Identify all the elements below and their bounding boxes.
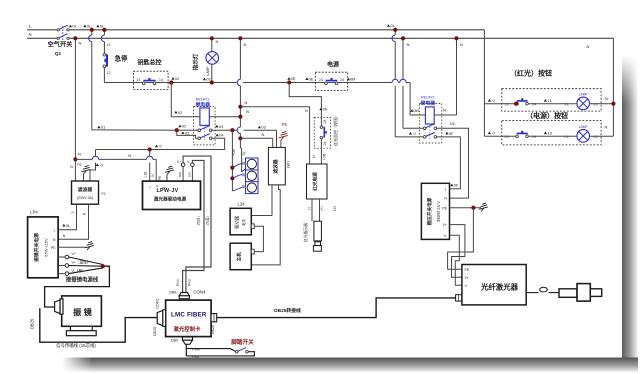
node +02 xyxy=(203,78,206,81)
svg-text:02: 02 xyxy=(185,130,190,135)
breaker Q1 (air switch) xyxy=(57,29,59,31)
wire +05 down to fans xyxy=(231,130,233,191)
svg-text:红光指示器: 红光指示器 xyxy=(303,223,308,242)
svg-text:PE: PE xyxy=(442,206,447,210)
wire DB25 adapter cable xyxy=(217,298,456,318)
svg-text:X1: X1 xyxy=(564,135,569,139)
svg-text:23: 23 xyxy=(318,78,322,82)
junction fan1 feed xyxy=(230,166,234,170)
svg-text:电源: 电源 xyxy=(327,61,339,69)
svg-text:振 镜: 振 镜 xyxy=(73,307,92,317)
svg-text:Pin1: Pin1 xyxy=(192,355,200,359)
PSU LPW-JV box xyxy=(143,181,201,209)
wire N drop x240 upper xyxy=(239,38,241,79)
svg-text:57W ±15V: 57W ±15V xyxy=(44,238,49,257)
wire N down to LPW N pin xyxy=(155,159,157,180)
svg-text:15(蓝): 15(蓝) xyxy=(204,216,209,225)
svg-text:0L: 0L xyxy=(72,24,77,29)
junction right rail xyxy=(611,102,615,106)
svg-text:N: N xyxy=(70,165,73,169)
relay U1 contact 2 xyxy=(198,137,201,140)
relay U2 coil xyxy=(425,107,434,124)
wire lamp to bus xyxy=(211,64,213,82)
wire Pin1 loop xyxy=(186,352,254,356)
svg-text:信号传输线 (15芯线): 信号传输线 (15芯线) xyxy=(56,342,96,349)
node +0M xyxy=(347,78,350,81)
svg-text:DB25: DB25 xyxy=(211,325,215,334)
svg-text:LP4: LP4 xyxy=(30,210,38,215)
svg-text:继电器: 继电器 xyxy=(421,99,436,106)
svg-text:N: N xyxy=(312,155,316,158)
wire N rail right of breaker xyxy=(69,37,614,39)
svg-text:主机: 主机 xyxy=(236,252,243,262)
wire hop xyxy=(89,35,92,41)
svg-text:L: L xyxy=(445,188,447,192)
svg-text:N: N xyxy=(79,41,82,46)
junction L x395 xyxy=(393,28,397,32)
svg-text:激光器驱动电源: 激光器驱动电源 xyxy=(154,196,187,203)
junction N x240 xyxy=(238,36,242,40)
power pushbutton xyxy=(516,135,519,138)
N drop x403 to relay2 xyxy=(402,38,404,79)
svg-text:振镜开关电源: 振镜开关电源 xyxy=(33,233,40,262)
svg-text:+0R: +0R xyxy=(322,153,326,160)
red-laser PSU 红光电源 xyxy=(307,164,328,199)
wire N to LW1 filter N pin xyxy=(242,137,273,139)
switched L return wire y149.5 xyxy=(96,149,225,151)
wire red PSU (-) to LD xyxy=(311,199,313,221)
junction at button 13 xyxy=(514,102,518,106)
wire L drop x104 to E-stop xyxy=(103,42,105,54)
svg-text:DB25: DB25 xyxy=(30,318,35,329)
wire N drop x240 mid xyxy=(239,86,241,107)
wire N down to fans xyxy=(239,138,241,148)
svg-text:0E: 0E xyxy=(323,107,328,112)
LP4 output terminals xyxy=(65,255,69,259)
svg-text:02: 02 xyxy=(178,110,183,115)
svg-text:12: 12 xyxy=(106,71,110,75)
wire L drop x92 lower xyxy=(91,42,93,130)
fan stack (3 cooling fans) xyxy=(246,158,259,194)
junction N x75 lower xyxy=(73,157,77,161)
wire relay1 contact2 out to left rail xyxy=(96,138,225,149)
svg-text:L1B: L1B xyxy=(144,172,148,178)
node +0L xyxy=(83,25,86,28)
wire L drop to filter lower xyxy=(90,163,96,181)
junction N x403 xyxy=(401,36,405,40)
svg-text:03: 03 xyxy=(219,124,224,129)
svg-text:24: 24 xyxy=(323,141,327,145)
svg-text:PE: PE xyxy=(158,176,162,180)
wire N drop x240 to coil junction xyxy=(239,107,241,127)
ground xyxy=(85,242,94,250)
svg-text:N2: N2 xyxy=(450,122,455,126)
junction bus red-laser branch xyxy=(287,80,291,84)
wire jog to relay1 contact2 xyxy=(177,130,198,138)
svg-text:(-): (-) xyxy=(307,207,311,210)
wire N drop x75 xyxy=(74,38,76,159)
laser control card LMC FIBER xyxy=(166,300,212,337)
svg-text:15(白): 15(白) xyxy=(196,216,201,225)
relay U2 contact 1 xyxy=(423,127,426,130)
svg-text:PE: PE xyxy=(465,268,470,272)
svg-text:LAMP: LAMP xyxy=(206,66,210,76)
junction N red-laser feed xyxy=(238,105,242,109)
svg-text:V-: V- xyxy=(187,160,190,164)
svg-text:X2: X2 xyxy=(593,135,598,139)
wire LPW V+ to CON4 xyxy=(183,156,211,292)
svg-text:0F: 0F xyxy=(454,183,459,188)
svg-text:Q1: Q1 xyxy=(55,51,62,57)
wire relay1 coil A2 to N xyxy=(209,116,240,118)
wire filter N out to LP4 xyxy=(58,204,88,239)
junction N x75 xyxy=(73,36,77,40)
svg-text:LPW-JV: LPW-JV xyxy=(156,188,178,194)
wire N down to filter F1 xyxy=(74,159,76,181)
wire control bus left xyxy=(104,82,236,84)
svg-text:0M: 0M xyxy=(350,77,356,82)
svg-text:LW1: LW1 xyxy=(286,161,290,169)
svg-text:-L: -L xyxy=(149,185,152,189)
svg-text:接振镜电源线: 接振镜电源线 xyxy=(66,276,99,284)
red-light button row wire xyxy=(484,103,516,105)
junction L x92 xyxy=(90,28,94,32)
svg-text:V-: V- xyxy=(465,284,468,288)
wire L drop x92 upper xyxy=(91,30,93,35)
junction bus lamp bottom xyxy=(210,80,214,84)
svg-text:N: N xyxy=(128,153,131,158)
wire bus drop to relay2 coil xyxy=(409,83,411,116)
svg-text:V+: V+ xyxy=(443,223,448,227)
wire +03 down to LW1 filter L pin xyxy=(276,130,278,147)
ground xyxy=(82,166,91,174)
svg-text:红光总控（按钮）: 红光总控（按钮） xyxy=(332,114,338,146)
svg-text:PE: PE xyxy=(162,186,166,190)
wire PE to laser xyxy=(448,208,474,270)
power button row wire xyxy=(484,135,516,137)
N drop x456.5 to relay2 coil xyxy=(456,38,458,115)
svg-text:N: N xyxy=(246,109,249,114)
svg-text:13: 13 xyxy=(547,131,552,136)
fan lead wires xyxy=(232,163,245,167)
svg-text:DB9: DB9 xyxy=(169,291,176,295)
wire L drop to filter upper xyxy=(95,150,97,157)
ground xyxy=(479,203,488,211)
svg-text:滤波器: 滤波器 xyxy=(78,186,93,193)
wire hop xyxy=(92,156,98,159)
svg-text:N: N xyxy=(245,100,248,105)
svg-text:Pin1: Pin1 xyxy=(176,279,180,286)
foot switch wires Pin9/Pin1 xyxy=(185,344,187,356)
wire N to relay2 contact1 xyxy=(403,127,424,129)
wire V+ to laser xyxy=(450,225,465,278)
CON4 connector top xyxy=(179,293,189,296)
svg-text:13: 13 xyxy=(504,103,508,107)
svg-text:03: 03 xyxy=(261,125,266,130)
svg-text:N: N xyxy=(242,152,247,155)
svg-text:Pin9: Pin9 xyxy=(192,347,200,351)
svg-text:激光控制卡: 激光控制卡 xyxy=(174,325,202,333)
wire L24 box1-box2 link xyxy=(254,226,263,251)
L drop x395 to relay2 xyxy=(394,30,396,35)
svg-text:+05: +05 xyxy=(232,149,236,155)
CON1 connector left xyxy=(157,310,163,325)
svg-text:滤波器: 滤波器 xyxy=(272,159,279,174)
svg-text:急停: 急停 xyxy=(115,54,128,63)
galvo head 振镜 xyxy=(62,296,102,326)
collimator assembly xyxy=(559,289,577,298)
page shadow right xyxy=(622,55,638,370)
svg-text:15V: 15V xyxy=(187,172,191,177)
wire L drop x104 upper xyxy=(103,30,105,35)
wire control bus gap xyxy=(398,82,399,84)
node +02 xyxy=(171,77,174,80)
svg-text:23: 23 xyxy=(504,135,508,139)
wire N down to fans x241.6 xyxy=(241,148,243,172)
wire +0M to relay2 coil xyxy=(410,114,425,116)
junction bus relay1 coil drop xyxy=(169,80,173,84)
junction fan2 feed xyxy=(230,176,234,180)
power button dashed box xyxy=(502,121,601,145)
svg-text:N: N xyxy=(444,197,447,201)
right rail of button panel xyxy=(612,38,614,136)
fiber output xyxy=(526,292,538,294)
svg-text:光纤激光器: 光纤激光器 xyxy=(480,283,519,292)
svg-text:F1: F1 xyxy=(102,192,106,196)
svg-text:（红光）按钮: （红光）按钮 xyxy=(510,69,552,78)
wire control bus right end xyxy=(406,82,410,84)
PE ground at LW1 xyxy=(280,140,282,147)
wire E-stop to bus xyxy=(103,68,105,83)
node +0L xyxy=(96,25,99,28)
wire hop xyxy=(237,79,240,85)
L24 interconnect xyxy=(251,224,254,229)
DB9 connector bottom xyxy=(183,337,193,340)
junction L x104 xyxy=(102,28,106,32)
svg-text:N: N xyxy=(156,184,158,188)
junction N relay1 coil xyxy=(238,115,242,119)
node +0E xyxy=(287,77,290,80)
svg-text:0E: 0E xyxy=(291,76,296,81)
PSU PE to ground xyxy=(450,207,482,209)
junction N x456 xyxy=(454,36,458,40)
wire N drop x240 below hop xyxy=(239,133,241,138)
fiber laser DB25 stub connector xyxy=(456,295,462,301)
foot switch contact xyxy=(236,350,239,353)
svg-text:LAMP: LAMP xyxy=(579,92,588,96)
svg-text:(220V 3A): (220V 3A) xyxy=(77,196,93,200)
ground xyxy=(279,132,288,140)
PSU 稳压开关电源 350W24V xyxy=(421,183,449,239)
svg-text:13: 13 xyxy=(136,78,140,82)
wire filter L out to LP4 xyxy=(58,204,76,230)
relay U1 coil xyxy=(200,108,209,126)
svg-text:14: 14 xyxy=(532,103,536,107)
svg-text:N: N xyxy=(216,39,219,44)
svg-text:CON4: CON4 xyxy=(193,289,206,294)
wire galvo power cable xyxy=(45,266,110,307)
junction PE xyxy=(471,206,475,210)
galvo power cable xyxy=(69,257,103,265)
PSU 振镜开关电源 LP4 xyxy=(28,217,58,278)
node +0L xyxy=(69,25,72,28)
junction N lamp top xyxy=(210,36,214,40)
svg-text:PE: PE xyxy=(51,246,56,250)
svg-text:X1: X1 xyxy=(564,103,569,107)
node +0 filter xyxy=(96,163,99,166)
svg-text:L: L xyxy=(54,229,56,233)
svg-text:V+: V+ xyxy=(177,160,181,164)
galvo DB25 connector xyxy=(60,299,63,314)
wire Pin9 to foot switch xyxy=(186,349,235,352)
DB25 connector right xyxy=(211,314,217,322)
wire galvo signal cable xyxy=(40,308,157,342)
svg-text:脚踏开关: 脚踏开关 xyxy=(231,338,254,346)
wire LW1 out2 to L24 box2 xyxy=(251,185,280,265)
filter F1 ground xyxy=(83,174,85,181)
svg-text:0F: 0F xyxy=(449,131,454,136)
svg-text:DB9: DB9 xyxy=(171,339,178,343)
ground xyxy=(165,166,174,174)
svg-text:24: 24 xyxy=(532,135,536,139)
svg-text:L24: L24 xyxy=(238,202,246,207)
svg-text:V+: V+ xyxy=(72,252,77,256)
relay U1 contact 1 xyxy=(198,129,201,132)
junction N LW1 feed xyxy=(238,136,242,140)
wire bus to relay1 coil A1 xyxy=(170,83,172,117)
junction +03 fan feed xyxy=(230,128,234,132)
red-laser master pushbutton 红光总控 xyxy=(314,117,330,148)
svg-text:350W 24 V: 350W 24 V xyxy=(436,201,441,222)
junction galvo cable xyxy=(101,264,105,268)
wire hop xyxy=(392,35,395,41)
svg-text:继电器: 继电器 xyxy=(196,101,211,108)
svg-text:N: N xyxy=(305,108,308,113)
wire bus to red-laser master switch xyxy=(289,83,321,126)
svg-text:0L: 0L xyxy=(66,223,71,228)
svg-text:(+): (+) xyxy=(320,206,324,210)
svg-text:N: N xyxy=(244,42,247,47)
svg-text:PE: PE xyxy=(77,163,82,167)
box L24 load 2 xyxy=(230,243,251,270)
svg-text:钥匙总控: 钥匙总控 xyxy=(137,59,161,67)
svg-text:N: N xyxy=(407,42,410,47)
relay U2 contact 2 xyxy=(423,136,426,139)
svg-text:N: N xyxy=(78,152,81,157)
svg-text:空气开关: 空气开关 xyxy=(48,41,74,49)
svg-text:24: 24 xyxy=(340,78,344,82)
svg-text:01: 01 xyxy=(101,125,106,130)
red-light button dashed box xyxy=(502,89,601,111)
red-light pushbutton xyxy=(516,102,519,105)
node +0E xyxy=(305,77,308,80)
wire red PSU (+) to LD xyxy=(319,199,321,221)
svg-text:CON1: CON1 xyxy=(156,298,160,309)
svg-text:14: 14 xyxy=(159,78,163,82)
wire relay2 contact1 out to PSU N xyxy=(436,128,468,198)
svg-text:N: N xyxy=(262,132,265,137)
svg-text:LAMP: LAMP xyxy=(579,125,588,129)
svg-text:LMC FIBER: LMC FIBER xyxy=(171,312,207,319)
svg-text:02: 02 xyxy=(175,76,180,81)
svg-text:DB25转接线: DB25转接线 xyxy=(274,307,301,314)
wire LW1 out1 down xyxy=(271,185,273,216)
wire N to lamp xyxy=(211,38,213,51)
fiber laser 光纤激光器 xyxy=(462,265,526,305)
wire relay2 contact2 out to PSU L xyxy=(436,137,460,189)
wire hop xyxy=(237,127,240,133)
svg-text:N: N xyxy=(443,108,446,113)
wire L to relay1 contact1 xyxy=(92,129,198,131)
filter F1 滤波器 220V3A xyxy=(72,181,99,204)
svg-text:N: N xyxy=(605,96,608,101)
svg-text:电源: 电源 xyxy=(241,219,246,226)
L feed drop for buttons x484 xyxy=(483,30,485,136)
svg-text:稳压开关电源: 稳压开关电源 xyxy=(426,197,433,225)
junction L feed LPW xyxy=(148,147,152,151)
svg-text:N: N xyxy=(28,32,31,37)
svg-text:红光电源: 红光电源 xyxy=(312,172,319,191)
wire relay1 contact1 out xyxy=(211,129,232,131)
svg-text:L: L xyxy=(71,211,75,213)
wire LPW V- to CON4 xyxy=(183,160,204,292)
wire switch to red-laser PSU xyxy=(320,139,322,164)
wire N to red-laser PSU xyxy=(240,107,309,164)
svg-text:02: 02 xyxy=(182,124,187,129)
wire hop xyxy=(101,35,104,41)
wire L rail right of breaker xyxy=(69,29,485,31)
svg-text:23: 23 xyxy=(323,120,327,124)
wire LW1 out1 to L24 box1 xyxy=(251,215,272,217)
svg-text:Pin2: Pin2 xyxy=(188,279,192,286)
svg-text:11: 11 xyxy=(107,43,111,47)
LP4 PE ground xyxy=(58,246,86,248)
svg-text:0E: 0E xyxy=(309,76,314,81)
svg-text:V+: V+ xyxy=(465,276,469,280)
svg-text:（电源）按钮: （电源）按钮 xyxy=(526,111,568,120)
svg-text:RELAY1: RELAY1 xyxy=(196,97,210,101)
svg-text:X2: X2 xyxy=(593,103,598,107)
wire L down to LPW upper xyxy=(149,150,151,157)
wire N rail left segment xyxy=(27,37,57,39)
wire L to relay2 contact2 xyxy=(395,136,423,138)
wire hop xyxy=(392,79,398,82)
wire hop xyxy=(400,79,406,82)
svg-text:驱动器: 驱动器 xyxy=(233,215,240,229)
svg-text:N: N xyxy=(63,234,66,238)
wire L rail left segment xyxy=(27,29,57,31)
junction relay1 contact1 in xyxy=(175,128,179,132)
svg-text:0M: 0M xyxy=(413,108,419,113)
page shadow bottom xyxy=(62,358,638,373)
red laser diode module 红光指示器 xyxy=(314,221,322,241)
wire hop xyxy=(147,156,153,159)
wire V- to laser xyxy=(450,235,462,285)
node +0L xyxy=(387,24,390,27)
svg-text:LD: LD xyxy=(332,206,337,211)
svg-text:N: N xyxy=(605,124,608,129)
wire control bus mid xyxy=(243,82,392,84)
svg-text:04: 04 xyxy=(219,133,224,138)
filter LW1 滤波器 xyxy=(268,147,285,185)
box L24 driver xyxy=(230,208,251,235)
wire L down to LPW lower xyxy=(149,163,151,181)
svg-text:指示灯: 指示灯 xyxy=(192,53,200,70)
svg-text:RELAY2: RELAY2 xyxy=(421,95,435,99)
svg-text:DB15: DB15 xyxy=(153,327,157,336)
LPW V+ V- terminals xyxy=(181,163,185,167)
svg-text:B15: B15 xyxy=(178,172,182,178)
